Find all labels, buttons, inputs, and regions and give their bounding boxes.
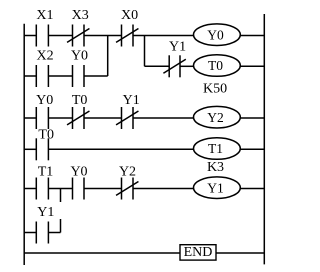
wire X1 to X3 bbox=[48, 35, 72, 37]
wire X0 to coil Y0 bbox=[133, 35, 194, 37]
svg-text:Y1: Y1 bbox=[169, 40, 186, 55]
wire coil Y0 to right rail bbox=[240, 35, 264, 37]
svg-text:END: END bbox=[184, 245, 213, 260]
wire Y0 to junction bbox=[84, 75, 108, 77]
svg-text:Y0: Y0 bbox=[207, 27, 224, 42]
wire Y1 to coil T0 bbox=[180, 65, 194, 67]
wire rung4 rail to T1 bbox=[24, 188, 36, 190]
svg-text:K3: K3 bbox=[207, 160, 224, 175]
contact Y1 (NC) bbox=[116, 107, 138, 129]
contact Y0 bbox=[36, 107, 48, 129]
wire coil T1 to right rail bbox=[240, 148, 264, 150]
wire branch4 stub up bbox=[60, 219, 62, 233]
contact bar bbox=[121, 25, 123, 47]
NC slash bbox=[116, 29, 138, 43]
contact bar bbox=[83, 107, 85, 129]
contact Y2 (NC) bbox=[116, 178, 138, 200]
wire branch4 rail to Y1 bbox=[24, 232, 36, 234]
wire rung1 rail to X1 bbox=[24, 35, 36, 37]
wire X3 to X0 bbox=[84, 35, 122, 37]
wire Y1 to coil Y2 bbox=[133, 117, 194, 119]
wire branch up to rung1 bbox=[107, 36, 109, 77]
wire Y0 to Y2 bbox=[84, 188, 122, 190]
wire branch rail to X2 bbox=[24, 75, 36, 77]
contact Y0 bbox=[73, 65, 85, 87]
contact bar bbox=[35, 222, 37, 244]
contact bar bbox=[72, 25, 74, 47]
svg-text:X2: X2 bbox=[37, 48, 54, 63]
left power rail bbox=[23, 24, 25, 265]
wire junction down to T0 branch bbox=[144, 36, 146, 67]
wire to Y1 contact bbox=[145, 65, 170, 67]
svg-text:T0: T0 bbox=[72, 93, 88, 108]
wire T0 to Y1 bbox=[84, 117, 122, 119]
contact bar bbox=[132, 178, 134, 200]
NC slash bbox=[67, 29, 89, 43]
contact bar bbox=[121, 178, 123, 200]
contact Y0 bbox=[73, 178, 85, 200]
wire rung3 rail to T0 bbox=[24, 148, 36, 150]
wire rung2 rail to Y0 bbox=[24, 117, 36, 119]
contact bar bbox=[35, 65, 37, 87]
svg-text:X3: X3 bbox=[72, 8, 89, 23]
svg-text:Y1: Y1 bbox=[123, 93, 140, 108]
contact X2 bbox=[36, 65, 48, 87]
contact bar bbox=[47, 222, 49, 244]
svg-text:Y0: Y0 bbox=[36, 93, 53, 108]
contact T0 bbox=[36, 138, 48, 160]
contact bar bbox=[72, 65, 74, 87]
contact bar bbox=[47, 178, 49, 200]
svg-text:T0: T0 bbox=[38, 127, 54, 142]
contact X3 (NC) bbox=[67, 25, 89, 47]
END box bbox=[180, 245, 216, 260]
contact bar bbox=[47, 65, 49, 87]
svg-text:Y1: Y1 bbox=[207, 180, 224, 195]
NC slash bbox=[67, 111, 89, 125]
svg-text:X0: X0 bbox=[121, 8, 138, 23]
contact X1 bbox=[36, 25, 48, 47]
svg-text:Y0: Y0 bbox=[71, 48, 88, 63]
wire Y2 to coil Y1 bbox=[133, 188, 194, 190]
contact bar bbox=[72, 178, 74, 200]
wire coil Y2 to right rail bbox=[240, 117, 264, 119]
contact Y1 bbox=[36, 222, 48, 244]
NC slash bbox=[163, 59, 185, 73]
coil T0 bbox=[194, 55, 241, 77]
svg-text:T1: T1 bbox=[38, 164, 54, 179]
contact bar bbox=[132, 25, 134, 47]
svg-text:K50: K50 bbox=[203, 81, 227, 96]
svg-text:X1: X1 bbox=[36, 8, 53, 23]
contact bar bbox=[168, 55, 170, 77]
wire coil Y1 to right rail bbox=[240, 188, 264, 190]
wire end rung rail to END box bbox=[24, 252, 180, 254]
wire Y1 to junction bbox=[48, 232, 60, 234]
junction stub down bbox=[60, 189, 62, 203]
right power rail bbox=[263, 14, 265, 264]
NC slash bbox=[116, 182, 138, 196]
wire coil T0 to right rail bbox=[240, 65, 264, 67]
contact bar bbox=[35, 178, 37, 200]
svg-text:Y0: Y0 bbox=[70, 164, 87, 179]
contact T1 bbox=[36, 178, 48, 200]
contact bar bbox=[121, 107, 123, 129]
contact T0 (NC) bbox=[67, 107, 89, 129]
contact bar bbox=[47, 138, 49, 160]
svg-text:T0: T0 bbox=[208, 58, 223, 73]
coil Y2 bbox=[194, 106, 241, 128]
wire T0 to coil T1 bbox=[48, 148, 193, 150]
wire T1 to Y0 bbox=[48, 188, 72, 190]
contact bar bbox=[35, 107, 37, 129]
contact bar bbox=[47, 25, 49, 47]
coil Y0 bbox=[194, 24, 241, 46]
wire Y0 to T0 bbox=[48, 117, 72, 119]
svg-text:Y2: Y2 bbox=[119, 164, 136, 179]
contact bar bbox=[179, 55, 181, 77]
contact bar bbox=[72, 107, 74, 129]
wire END box to right rail bbox=[216, 252, 264, 254]
svg-text:T1: T1 bbox=[208, 141, 223, 156]
svg-text:Y2: Y2 bbox=[207, 110, 224, 125]
wire X2 to Y0 bbox=[48, 75, 72, 77]
contact bar bbox=[83, 25, 85, 47]
contact bar bbox=[83, 178, 85, 200]
svg-text:Y1: Y1 bbox=[37, 205, 54, 220]
contact X0 (NC) bbox=[116, 25, 138, 47]
coil Y1 bbox=[194, 177, 241, 199]
contact bar bbox=[35, 25, 37, 47]
contact Y1 (NC) bbox=[163, 55, 185, 77]
NC slash bbox=[116, 111, 138, 125]
contact bar bbox=[47, 107, 49, 129]
contact bar bbox=[35, 138, 37, 160]
contact bar bbox=[132, 107, 134, 129]
contact bar bbox=[83, 65, 85, 87]
coil T1 bbox=[194, 138, 241, 160]
